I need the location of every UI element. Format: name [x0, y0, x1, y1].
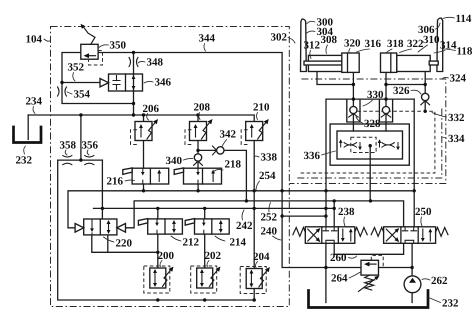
- svg-text:264: 264: [331, 273, 348, 285]
- wire: tank 234 drop into reservoir: [27, 115, 29, 140]
- check valve 330 left (circle and seat): [350, 106, 357, 113]
- wire: valve 220 bottom ports loop to 200 line: [92, 235, 158, 253]
- wire: valve 206 top port: [143, 115, 145, 122]
- wire: drop from tank rail to orifice line 356/358: [80, 115, 82, 160]
- solenoid valve 218: [174, 168, 221, 184]
- wire: valve 212 bottom to valve 200: [157, 234, 159, 268]
- pilot operated valve 220: [75, 219, 125, 235]
- svg-text:262: 262: [431, 275, 448, 287]
- solenoid valve 212: [138, 219, 182, 235]
- svg-text:354: 354: [74, 89, 91, 101]
- pressure reducing valve 208: [185, 119, 213, 145]
- svg-text:202: 202: [205, 250, 222, 262]
- svg-text:232: 232: [16, 155, 33, 167]
- wire: rail2 y=200.4 left end to right pilot of 220, right end into 250 top: [126, 201, 404, 228]
- svg-text:220: 220: [116, 238, 133, 250]
- pilot triangle of 346: [100, 79, 109, 87]
- svg-text:234: 234: [26, 96, 43, 108]
- svg-text:250: 250: [415, 206, 432, 218]
- svg-text:214: 214: [230, 237, 247, 249]
- check valve 342: [217, 147, 224, 154]
- svg-text:328: 328: [364, 118, 381, 130]
- pump 262: [404, 276, 421, 293]
- wire: valve 214 top port from rail3: [204, 208, 206, 219]
- orifice 348: [129, 57, 138, 67]
- svg-text:340: 340: [166, 155, 183, 167]
- left cylinder rod 312: [304, 61, 342, 65]
- svg-text:114: 114: [456, 13, 472, 25]
- svg-text:242: 242: [236, 220, 253, 232]
- wire: manifold right side down into valve 250 top: [413, 99, 415, 227]
- orifice 358: [62, 155, 72, 165]
- directional spool valve 250: [371, 227, 448, 244]
- wire: valve 208 top port: [197, 115, 199, 122]
- svg-text:336: 336: [304, 150, 321, 162]
- svg-text:260: 260: [330, 252, 347, 264]
- svg-text:206: 206: [143, 103, 160, 115]
- svg-text:308: 308: [321, 34, 338, 46]
- wire: valve 214 bottom to valve 202: [204, 234, 206, 268]
- directional spool valve 238: [293, 227, 367, 244]
- manifold block outline 328: [330, 124, 409, 165]
- wire: valve 216 bottom to rail1: [143, 184, 145, 191]
- left hydraulic cylinder 308: barrel: [308, 55, 343, 71]
- wire: branch through check 326 to pilot line 332: [424, 85, 426, 112]
- svg-text:302: 302: [271, 32, 288, 44]
- wire: orifice line 358/356: [58, 159, 103, 161]
- svg-text:338: 338: [261, 152, 278, 164]
- wire: valve 208 bottom through check 340 to valve 218 top: [197, 141, 199, 169]
- svg-text:330: 330: [367, 89, 384, 101]
- wire: valve 212 top port from rail3: [157, 208, 159, 219]
- relief valve 200: [144, 266, 174, 293]
- svg-text:320: 320: [344, 38, 361, 50]
- svg-text:240: 240: [261, 226, 278, 238]
- node: manifold check pocket left: [347, 99, 360, 122]
- right cylinder head 318/322: [381, 53, 397, 72]
- wire: manifold top rail: [326, 98, 414, 100]
- svg-text:238: 238: [338, 206, 355, 218]
- wire: left rail down and bottom rail: [58, 160, 255, 300]
- relief valve 264: [359, 255, 384, 291]
- orifice 356: [84, 155, 94, 165]
- wire: tank rail y=114.5 into valve 210 top: [28, 115, 254, 122]
- svg-text:232: 232: [442, 298, 459, 310]
- svg-text:218: 218: [225, 159, 242, 171]
- svg-text:252: 252: [261, 212, 278, 224]
- svg-text:312: 312: [304, 40, 321, 52]
- wire: left cylinder rod-end port: [317, 73, 353, 85]
- wire: left cylinder head-end port down to manifold: [352, 73, 354, 132]
- relief valve 350: [81, 44, 98, 59]
- svg-text:204: 204: [253, 251, 270, 263]
- solenoid valve 214: [185, 219, 229, 235]
- wire: supply line 344 from valve 350 right across and down, line 240 to relief 264: [98, 53, 412, 268]
- svg-text:342: 342: [220, 129, 237, 141]
- wire: valve 250 bottom to pump 262 and into tank: [411, 243, 413, 302]
- svg-text:306: 306: [418, 24, 435, 36]
- wire: line 352 from valve 350 left to pilot of 346: [62, 53, 100, 83]
- relief valve 202: [191, 266, 221, 293]
- right cylinder rod 314: [429, 61, 438, 65]
- counterbalance block 336: [337, 131, 403, 159]
- svg-text:326: 326: [393, 85, 410, 97]
- check valve 340: [194, 154, 201, 161]
- pilot dash on valve 350: [89, 51, 103, 66]
- boundary box 334 (dash-dot L): [296, 109, 442, 179]
- svg-text:208: 208: [194, 102, 211, 114]
- solenoid valve 346: [109, 74, 143, 91]
- wire: line 354 return to valve 346 bottom left: [62, 83, 134, 104]
- wire: rail3 y=207.9: [94, 207, 335, 209]
- svg-text:346: 346: [155, 77, 172, 89]
- svg-text:118: 118: [457, 46, 473, 58]
- orifice 354: [57, 87, 66, 97]
- svg-text:104: 104: [26, 34, 43, 46]
- check valve 326: [422, 93, 429, 100]
- wire: valve 218 bottom to rail1: [197, 184, 199, 191]
- relief valve 204: [240, 267, 270, 294]
- right hydraulic cylinder 310: barrel: [397, 55, 431, 71]
- svg-text:356: 356: [82, 140, 99, 152]
- svg-text:334: 334: [448, 133, 465, 145]
- wire: line 254 through check 342 down to rail2: [198, 150, 246, 201]
- wire: right cylinder head-end port down to manifold: [385, 73, 387, 132]
- wire: line 338 from valve 210 down to valve 204 and tank rail bottom: [253, 141, 255, 301]
- wire: loop 260 between valve 238 and valve 250 bottoms: [334, 243, 403, 254]
- left cylinder head 316/320: [342, 53, 359, 72]
- boundary box 104 (dash-dot): [51, 27, 290, 307]
- wire: valve 238 right top port to rail2: [333, 201, 335, 227]
- svg-text:358: 358: [60, 140, 77, 152]
- wire: valve 206 bottom to valve 216 top: [143, 141, 145, 169]
- solenoid valve 216: [123, 168, 169, 184]
- svg-text:254: 254: [259, 170, 276, 182]
- wire: valve 346 bottom to tank rail: [133, 91, 135, 115]
- svg-text:210: 210: [253, 102, 270, 114]
- pressure reducing valve 210: [241, 119, 269, 145]
- wire: orifice 348 branch into valve 346 top: [133, 53, 135, 75]
- wire: rail1 y=191.5 with left end to pilot of 220: [68, 191, 414, 228]
- svg-text:200: 200: [158, 250, 175, 262]
- wire: branch y=215.6 from line 240 to valve 238 centre port: [282, 215, 326, 217]
- node: manifold check pocket right: [379, 99, 392, 122]
- svg-text:212: 212: [183, 237, 200, 249]
- svg-text:332: 332: [448, 112, 465, 124]
- reservoir 234/232 (left tank): [14, 127, 42, 143]
- pressure reducing valve 206: [131, 119, 159, 145]
- wire: valve 238 left bottom port to tank: [325, 243, 327, 302]
- wire: right cylinder rod-end port: [386, 73, 425, 85]
- svg-text:350: 350: [110, 40, 127, 52]
- wire: manifold 336 bottom port to rail2: [369, 146, 371, 201]
- check valve 330 right: [382, 106, 389, 113]
- svg-text:318: 318: [387, 38, 404, 50]
- reservoir 232 (right tank): [309, 291, 429, 308]
- svg-text:352: 352: [68, 62, 85, 74]
- svg-text:322: 322: [407, 38, 424, 50]
- svg-text:348: 348: [147, 57, 164, 69]
- blade 114 (left): [301, 19, 307, 72]
- svg-text:216: 216: [107, 176, 124, 188]
- svg-text:324: 324: [450, 73, 467, 85]
- svg-text:316: 316: [365, 38, 382, 50]
- blade 118 (right): [437, 18, 443, 72]
- wire: manifold left side into block 336: [325, 99, 327, 227]
- boundary box 324 (dash-dot): [289, 79, 446, 184]
- wire: drop from orifice line to rail3 and valve 220 top: [101, 160, 103, 219]
- svg-text:344: 344: [199, 33, 216, 45]
- pilot line 332 (dashed): [300, 111, 435, 173]
